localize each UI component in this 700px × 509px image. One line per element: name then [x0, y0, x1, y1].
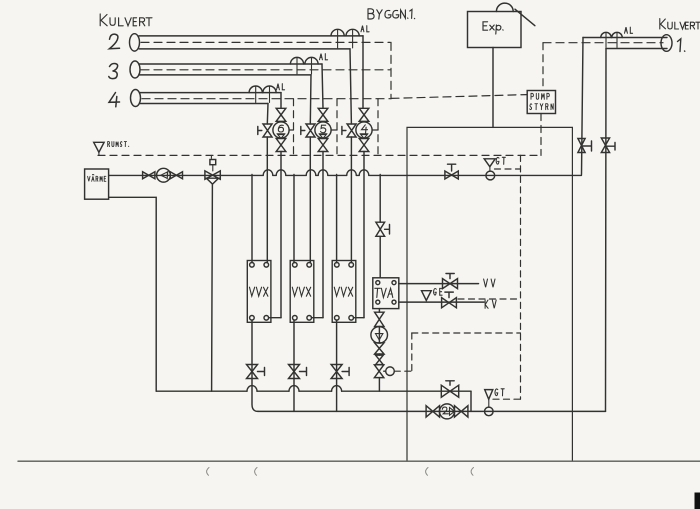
sensor GE on KV line — [422, 291, 432, 301]
pipe 4 drop to VVX1 leg — [266, 104, 269, 125]
pump P5 — [315, 122, 331, 138]
valve below pump P4 — [359, 139, 369, 152]
riser pump6 to VVX1 — [280, 152, 282, 318]
VVX secondary supply drops from header — [252, 175, 337, 263]
TVA circulation chain: valve — [375, 312, 384, 326]
dashed wire KV valve to control drop — [458, 298, 521, 300]
valve with T-stem on supply header right — [445, 164, 458, 179]
valve on VVX3 return — [331, 365, 349, 379]
label KULVERT top-left — [100, 14, 152, 26]
pipe 3 — [130, 61, 390, 78]
dashed control bus — [98, 154, 541, 156]
valve after return pump — [455, 406, 468, 417]
control dashes pump6 — [289, 99, 293, 156]
pipe 4 — [131, 90, 528, 107]
EXP drop line — [492, 48, 494, 128]
label KULVERT 1. right — [660, 19, 700, 29]
VVX1 primary out to riser — [269, 317, 281, 319]
3-way mixing valve SV1 — [205, 155, 220, 184]
shut-off valve on leg 3 — [342, 124, 356, 137]
pump P4 — [356, 122, 372, 138]
valve below TVA pump — [375, 343, 384, 354]
3-way valve drop line — [211, 184, 214, 391]
expansion vessel EXP — [468, 3, 535, 47]
pencil tick marks — [207, 468, 474, 476]
air vents AL on kulvert 1 — [601, 32, 622, 47]
pipe 2 drop to VVX3 leg — [350, 49, 351, 124]
scan artifact bottom right — [695, 493, 700, 509]
shut-off valve on leg 2 — [301, 124, 315, 137]
leg 1 down to VVX1 top-right — [266, 137, 268, 263]
drawing frame bottom line — [18, 460, 700, 462]
hot water VV line — [399, 283, 479, 285]
valve on header after Varme — [143, 172, 155, 179]
valve on kulvert return drop — [601, 138, 615, 153]
PUMP STYRN control box — [527, 91, 555, 114]
valve below pump P6 — [276, 139, 286, 152]
chain link lines — [378, 309, 380, 392]
TVA tap water unit — [373, 278, 399, 309]
room thermostat RUMST — [94, 142, 104, 155]
Varme return L-pipe — [109, 197, 157, 391]
valve on VVX2 return — [289, 365, 307, 379]
valve on VV line — [443, 274, 458, 289]
shut-off valve on leg 1 — [258, 124, 272, 137]
bottom valve with gauge — [374, 365, 394, 378]
valve below pump P5 — [318, 139, 328, 152]
control dashes pump5 — [331, 99, 337, 156]
VARME boiler box — [85, 169, 109, 199]
VVX2 secondary return drop — [293, 320, 295, 411]
valve on VVX1 return — [247, 365, 265, 379]
lower header 1 (heating return) — [156, 390, 471, 392]
kulvert 1 pipe (right) — [543, 35, 672, 52]
dashed wiring to gauge — [394, 155, 520, 399]
circulation pump on header — [157, 168, 171, 182]
dashed junction pipes 2+3 centrelines down to pump-styrn bus — [390, 42, 392, 98]
dashed wire GT to control drop — [495, 168, 521, 170]
air vents AL on pipe 4 — [249, 86, 276, 103]
TVA circulation pump — [371, 327, 388, 344]
dashed wire GT2 to control drop — [493, 398, 521, 400]
pipe 2 (kulvert line 2, double-line with dashed centreline) — [130, 34, 391, 51]
header 1 corner down to header 2 — [470, 391, 472, 411]
cold water KV line — [399, 301, 484, 303]
VVX3 primary out to riser — [354, 317, 365, 319]
valve with T-stem on header 1 — [441, 381, 458, 397]
label BYGGN. 1. — [368, 9, 415, 19]
kulvert 1 supply drop — [582, 38, 584, 175]
VVX3 secondary return drop — [336, 320, 338, 411]
VVX2 primary out to riser — [312, 317, 324, 319]
pump group P6: valve above — [276, 108, 286, 121]
air vents AL on pipe 2 — [331, 29, 359, 48]
pump group P5: valve above — [318, 108, 328, 121]
valve before return pump — [426, 406, 439, 417]
lower header 2 (kulvert return) — [258, 410, 606, 412]
pipe 2 drop to pump group 4 — [362, 36, 364, 108]
label 2 — [109, 34, 119, 49]
valve on header after pump — [170, 172, 182, 179]
VVX1 secondary return drop — [252, 320, 258, 411]
riser pump5 to VVX2 — [322, 152, 324, 318]
leg 2 down to VVX2 top-right — [309, 137, 311, 263]
pipe 3 drop to VVX2 leg — [309, 75, 312, 124]
leg 3 down to VVX3 top-right — [350, 137, 352, 263]
valve on TVA supply — [376, 222, 390, 236]
return pump P2 — [440, 404, 455, 419]
building boundary rectangle Byggn 1 — [407, 127, 572, 461]
label 4 — [109, 93, 120, 107]
heat exchanger VVX2 — [290, 261, 314, 323]
TVA supply line from header — [379, 175, 381, 278]
control dashes pump4 — [372, 99, 378, 156]
crossing bumps on supply header — [263, 170, 369, 176]
riser pump4 to VVX3 — [363, 152, 365, 318]
temperature sensor GT on supply header — [484, 159, 495, 180]
pump P6 — [273, 122, 289, 138]
dashed wire pump-styrn top to kulvert 1 centreline — [542, 43, 544, 91]
kulvert 1 return drop — [605, 49, 608, 412]
heat exchanger VVX3 — [332, 261, 356, 323]
check valve — [376, 355, 384, 364]
label 3 — [109, 63, 118, 78]
heat exchanger VVX1 — [247, 261, 271, 323]
valve on KV line — [442, 298, 457, 308]
pipe 4 drop to pump group 6 — [280, 93, 282, 109]
dashed wire pump-styrn bottom to bus — [540, 114, 542, 156]
pump group P4: valve above — [359, 108, 369, 121]
air vents AL on pipe 3 — [290, 57, 318, 74]
crossing bumps on lower header 1 — [247, 386, 342, 392]
temperature sensor GT on header 2 — [485, 390, 494, 416]
heating supply header y=175 — [109, 174, 582, 176]
valve on kulvert supply drop — [578, 139, 592, 153]
pipe 3 drop to pump group 5 — [322, 64, 323, 108]
